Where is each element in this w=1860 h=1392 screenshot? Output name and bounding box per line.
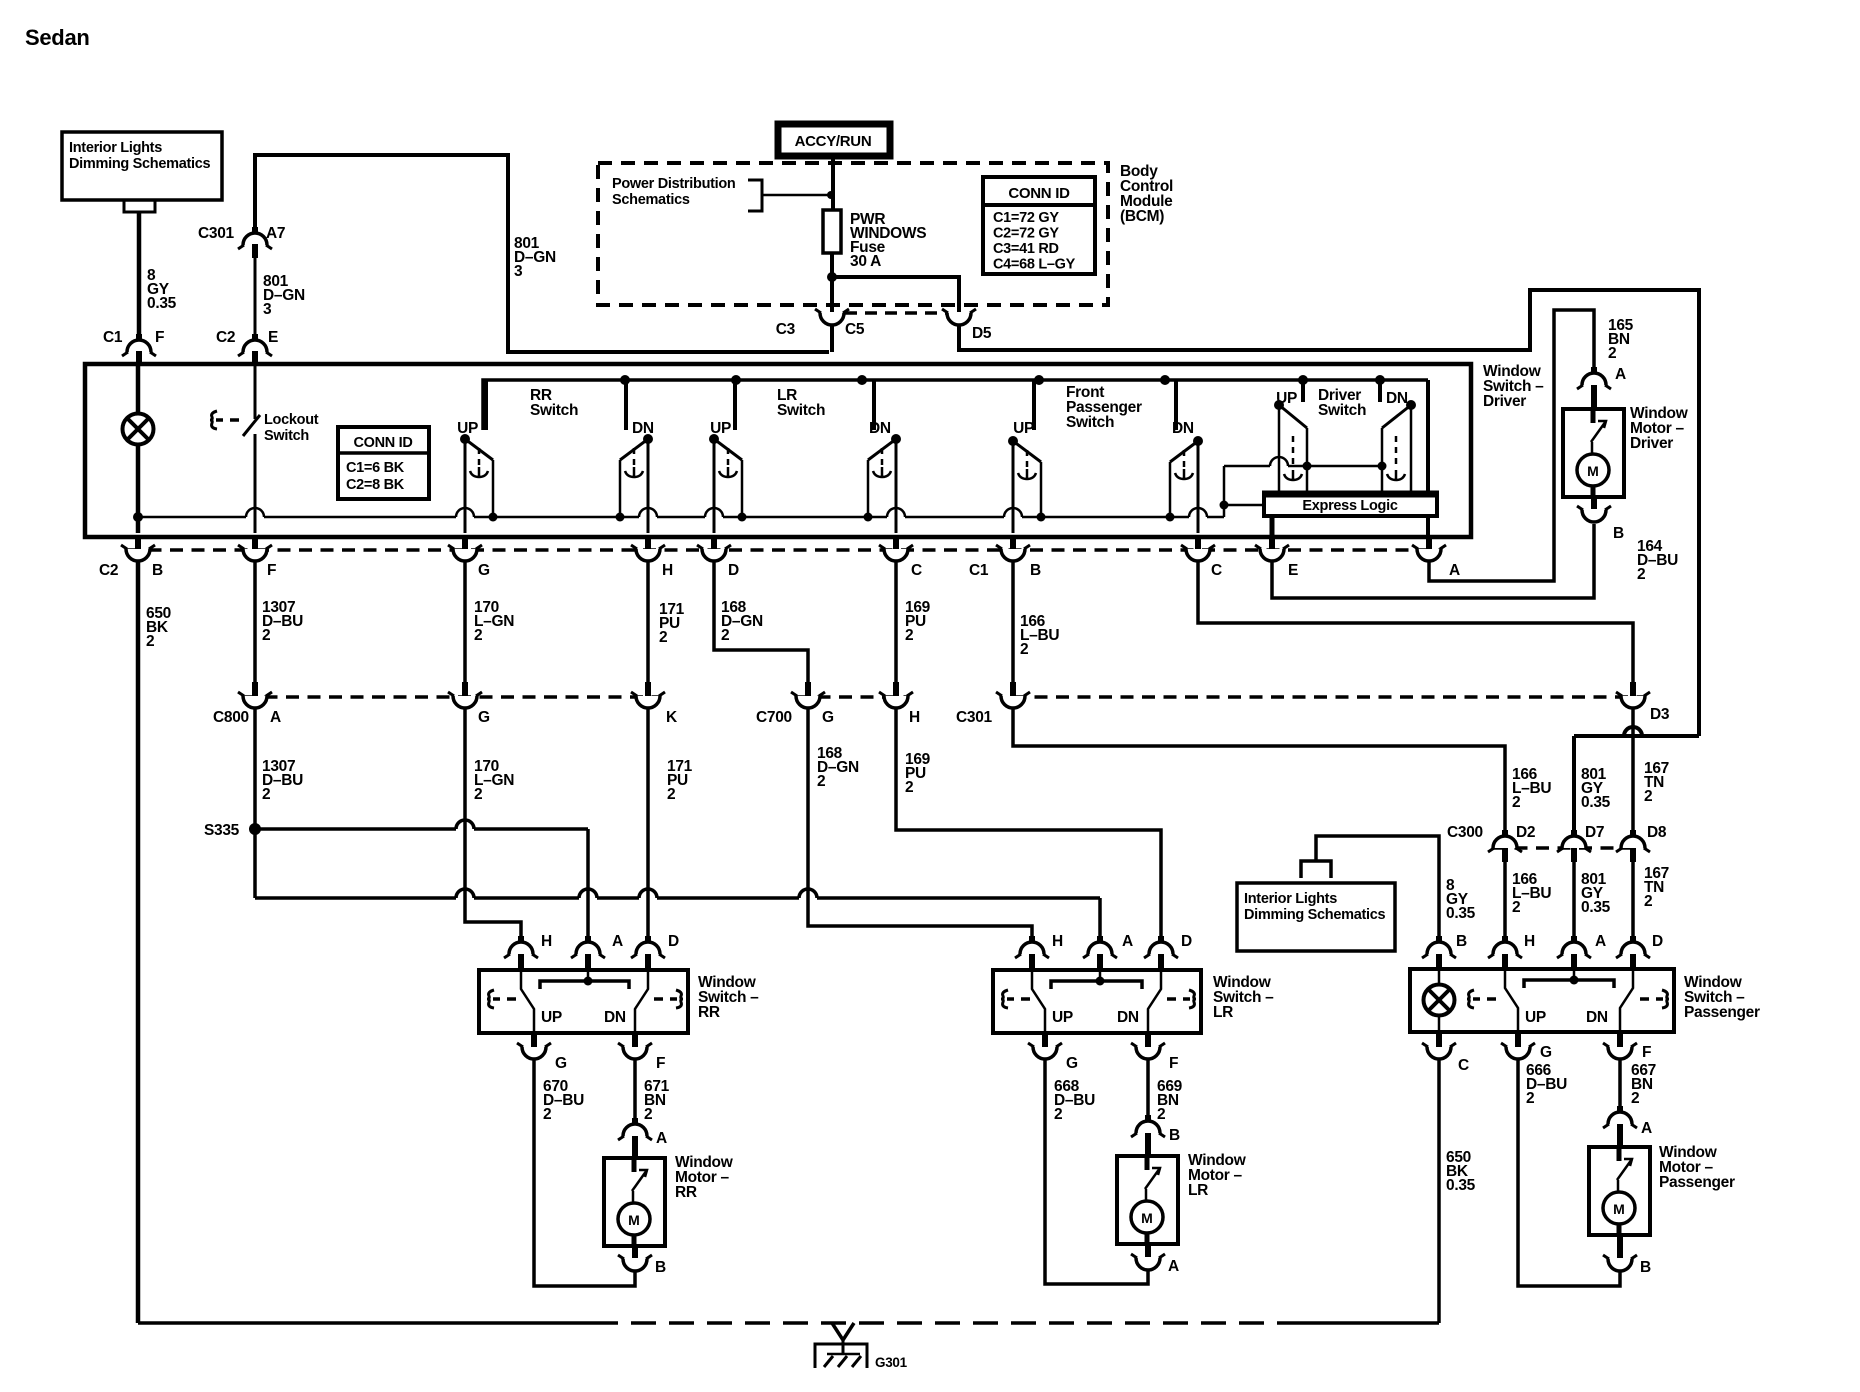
bracket below interior lights box bbox=[124, 200, 155, 212]
window switch box Window Switch - Passenger bbox=[1410, 969, 1674, 1032]
svg-text:Passenger: Passenger bbox=[1684, 1004, 1760, 1021]
stub pin D8 bbox=[1630, 830, 1636, 840]
svg-text:0.35: 0.35 bbox=[1446, 905, 1476, 922]
stub into box LR D bbox=[1158, 954, 1164, 970]
svg-text:DN: DN bbox=[604, 1009, 626, 1026]
connector cap terminal RR D bbox=[636, 942, 660, 954]
connector cap C300 terminal D7 bbox=[1562, 836, 1586, 848]
wire circuit 650 BK to ground bbox=[136, 562, 141, 1323]
svg-text:A: A bbox=[1595, 933, 1606, 950]
junction splice S335 bbox=[249, 823, 261, 835]
stub pin RR A bbox=[585, 936, 591, 946]
passenger common bar bbox=[1524, 980, 1614, 988]
svg-text:F: F bbox=[267, 562, 276, 579]
wire circuit 164 D-BU driver E to motor B bbox=[1272, 524, 1594, 598]
svg-text:C1: C1 bbox=[969, 562, 989, 579]
svg-text:B: B bbox=[1640, 1259, 1651, 1276]
svg-text:M: M bbox=[1613, 1201, 1625, 1217]
switch element Front Passenger UP bbox=[1008, 380, 1046, 533]
stub pin RR motor A bbox=[632, 1118, 638, 1128]
Window Switch - LR UP contact bbox=[1032, 970, 1045, 1033]
svg-text:CONN ID: CONN ID bbox=[1008, 185, 1070, 202]
stub pin RR D bbox=[645, 936, 651, 946]
svg-text:C: C bbox=[911, 562, 922, 579]
svg-text:M: M bbox=[1587, 463, 1599, 479]
svg-text:H: H bbox=[662, 562, 673, 579]
svg-text:UP: UP bbox=[1013, 420, 1034, 437]
stub passenger motor B out bbox=[1617, 1235, 1623, 1258]
stub into box RR A bbox=[585, 954, 591, 970]
stub PASS G out bbox=[1515, 1033, 1521, 1047]
svg-text:A: A bbox=[1615, 366, 1626, 383]
wire circuit 668 loop to motor A bbox=[1045, 1060, 1148, 1284]
svg-text:B: B bbox=[1456, 933, 1467, 950]
wire circuit 168 to LR switch H bbox=[808, 709, 1032, 940]
stub into box LR A bbox=[1097, 954, 1103, 970]
connector cap row1 terminal B bbox=[1001, 549, 1025, 561]
connector cap row1 terminal E bbox=[1260, 549, 1284, 561]
stub pin D7 bbox=[1571, 830, 1577, 840]
stub PASS F out bbox=[1617, 1033, 1623, 1047]
svg-text:Switch: Switch bbox=[264, 428, 309, 444]
wire lockout feed from C2-E bbox=[254, 365, 257, 419]
svg-text:D2: D2 bbox=[1516, 824, 1535, 841]
bracket above interior lights box bbox=[1301, 861, 1331, 878]
wire circuit 169 to LR switch D bbox=[896, 709, 1161, 940]
dashed connector row C800 bbox=[243, 695, 660, 699]
wire ACCY/RUN feed down bbox=[831, 156, 835, 210]
svg-text:A7: A7 bbox=[266, 225, 285, 242]
svg-text:2: 2 bbox=[1512, 899, 1520, 916]
connector cap row2 terminal C700 H bbox=[884, 696, 908, 708]
wire circuit 801 GY to passenger A bbox=[1572, 862, 1576, 940]
stub RR motor B out bbox=[632, 1246, 638, 1258]
svg-text:LR: LR bbox=[1188, 1182, 1208, 1199]
svg-text:2: 2 bbox=[721, 627, 729, 644]
driver sub-box right edge bbox=[1426, 380, 1430, 535]
ground bus solid left bbox=[138, 1321, 593, 1325]
stub RR G out bbox=[531, 1033, 537, 1047]
svg-text:H: H bbox=[909, 709, 920, 726]
junction feed junction bbox=[827, 191, 835, 199]
svg-text:C2=8 BK: C2=8 BK bbox=[346, 477, 405, 493]
wire switch common bus bbox=[138, 508, 1224, 517]
wire S335 branch to RR switch A bbox=[255, 820, 588, 829]
connector cap row2 terminal C301 B bbox=[1001, 696, 1025, 708]
stub into box RR D bbox=[645, 954, 651, 970]
connector cap row1 terminal C bbox=[884, 549, 908, 561]
svg-text:C5: C5 bbox=[845, 321, 865, 338]
svg-text:S335: S335 bbox=[204, 822, 240, 839]
svg-text:2: 2 bbox=[1054, 1106, 1062, 1123]
connector cap terminal PASS B bbox=[1427, 942, 1451, 954]
window motor Window Motor - RR bbox=[604, 1158, 665, 1246]
svg-text:C: C bbox=[1458, 1057, 1469, 1074]
svg-text:2: 2 bbox=[1631, 1090, 1639, 1107]
svg-text:2: 2 bbox=[1020, 641, 1028, 658]
svg-text:A: A bbox=[1641, 1120, 1652, 1137]
connector cap row2 terminal C800 A bbox=[243, 696, 267, 708]
connector cap passenger terminal C bbox=[1427, 1047, 1451, 1059]
connector cap driver motor terminal B bbox=[1582, 510, 1606, 522]
svg-text:(BCM): (BCM) bbox=[1120, 208, 1164, 225]
svg-text:D: D bbox=[668, 933, 679, 950]
dashed connector line C5-D5 bbox=[845, 311, 946, 315]
svg-text:LR: LR bbox=[1213, 1004, 1233, 1021]
svg-text:2: 2 bbox=[474, 786, 482, 803]
stub above row2 C301 D3 bbox=[1630, 682, 1636, 696]
svg-text:2: 2 bbox=[1644, 788, 1652, 805]
svg-text:G: G bbox=[555, 1055, 567, 1072]
svg-text:H: H bbox=[1524, 933, 1535, 950]
connector cap terminal PASS H bbox=[1493, 942, 1517, 954]
wire circuit 170 to C800-G bbox=[463, 562, 467, 684]
stub pin LR D bbox=[1158, 936, 1164, 946]
dashed connector row C2/C1 (switch assembly) bbox=[127, 548, 1441, 552]
connector cap row1 terminal C bbox=[1186, 549, 1210, 561]
connector cap terminal LR H bbox=[1020, 942, 1044, 954]
stub pin PASS B bbox=[1436, 936, 1442, 946]
switch element Driver UP bbox=[1274, 380, 1312, 493]
stub below D2 bbox=[1502, 848, 1508, 862]
stub above row1 C bbox=[1195, 535, 1201, 549]
svg-text:G: G bbox=[1066, 1055, 1078, 1072]
connector cap row2 terminal C800 G bbox=[453, 696, 477, 708]
svg-text:0.35: 0.35 bbox=[147, 295, 177, 312]
svg-text:D: D bbox=[728, 562, 739, 579]
wire tap to express logic bbox=[1224, 504, 1264, 507]
svg-text:Lockout: Lockout bbox=[264, 412, 319, 428]
svg-text:A: A bbox=[1168, 1258, 1179, 1275]
svg-text:Driver: Driver bbox=[1483, 393, 1526, 410]
switch element LR UP bbox=[709, 380, 747, 533]
stub above row2 C700 H bbox=[893, 682, 899, 696]
connector cap RR terminal F bbox=[623, 1047, 647, 1059]
svg-text:2: 2 bbox=[659, 629, 667, 646]
stub above row2 C301 B bbox=[1010, 682, 1016, 696]
stub pin PASS H bbox=[1502, 936, 1508, 946]
stub above row1 D bbox=[711, 535, 717, 549]
svg-text:G: G bbox=[478, 709, 490, 726]
wire driver C terminal to D3 bbox=[1198, 562, 1633, 684]
svg-text:RR: RR bbox=[698, 1004, 720, 1021]
wire circuit 666 loop to motor B bbox=[1518, 1060, 1620, 1286]
svg-text:2: 2 bbox=[667, 786, 675, 803]
stub pin A7 bbox=[252, 227, 258, 237]
switch assembly CONN ID table bbox=[338, 427, 429, 499]
stub into box PASS D bbox=[1630, 954, 1636, 970]
wire lamp to C bbox=[1438, 1015, 1441, 1032]
svg-text:D: D bbox=[1181, 933, 1192, 950]
wire lamp feed inside bbox=[1438, 969, 1441, 985]
svg-text:30 A: 30 A bbox=[850, 253, 881, 270]
wire lockout output down bbox=[254, 434, 257, 533]
stub pin C2-E bbox=[252, 334, 258, 344]
svg-text:Driver: Driver bbox=[1630, 435, 1673, 452]
ground G301 bbox=[815, 1323, 867, 1368]
express logic output to E bbox=[1270, 516, 1275, 535]
wire circuit 8 GY from interior lights bbox=[137, 212, 142, 337]
wire circuit 801 D-GN from BCM C3 to C301-A7 bbox=[255, 155, 829, 352]
wire circuit 171 to C800-K bbox=[646, 562, 650, 684]
wire circuit 8 GY to passenger lamp bbox=[1316, 836, 1439, 940]
window motor Window Motor - Driver bbox=[1563, 409, 1624, 497]
stub RR F out bbox=[632, 1033, 638, 1047]
svg-text:C: C bbox=[1211, 562, 1222, 579]
wire circuit 669 to motor B bbox=[1146, 1060, 1150, 1122]
wire circuit 167 to passenger D bbox=[1631, 862, 1635, 940]
svg-text:2: 2 bbox=[474, 627, 482, 644]
svg-text:UP: UP bbox=[1052, 1009, 1073, 1026]
svg-text:D7: D7 bbox=[1585, 824, 1604, 841]
stub LR G out bbox=[1042, 1033, 1048, 1047]
wire circuit 671 to motor A bbox=[633, 1060, 637, 1125]
svg-text:2: 2 bbox=[262, 627, 270, 644]
off-page reference Interior Lights Dimming Schematics (right) bbox=[1237, 883, 1395, 951]
junction rail junction x=625 bbox=[620, 375, 630, 385]
wire circuit 165 BN driver A to motor A bbox=[1429, 310, 1594, 581]
stub into LR motor bbox=[1145, 1133, 1151, 1156]
switch element Driver DN bbox=[1378, 380, 1417, 493]
connector cap terminal RR H bbox=[509, 942, 533, 954]
connector cap BCM D5 bbox=[947, 313, 971, 325]
lamp passenger switch lamp bbox=[1424, 985, 1455, 1016]
wire circuit 650 BK passenger to ground bbox=[1437, 1060, 1441, 1323]
connector cap terminal PASS D bbox=[1621, 942, 1645, 954]
svg-text:Switch: Switch bbox=[777, 402, 825, 419]
svg-text:G: G bbox=[1540, 1044, 1552, 1061]
wire circuit 670 loop to motor B bbox=[534, 1060, 635, 1286]
svg-text:G: G bbox=[822, 709, 834, 726]
svg-text:Dimming Schematics: Dimming Schematics bbox=[1244, 907, 1385, 923]
svg-text:Power Distribution: Power Distribution bbox=[612, 176, 736, 192]
stub into RR motor bbox=[632, 1136, 638, 1158]
Window Switch - LR DN contact bbox=[1148, 970, 1161, 1033]
switch element RR DN bbox=[616, 380, 654, 533]
connector cap passenger motor terminal B bbox=[1608, 1259, 1632, 1271]
window switch box Window Switch - LR bbox=[993, 970, 1201, 1033]
connector cap LR terminal G bbox=[1033, 1047, 1057, 1059]
stub PASS C out bbox=[1436, 1033, 1442, 1047]
connector cap C301 terminal A7 bbox=[243, 233, 267, 245]
stub above row1 G bbox=[462, 535, 468, 549]
connector cap passenger terminal F bbox=[1608, 1047, 1632, 1059]
wire circuit 167 D3 to D8 bbox=[1631, 709, 1635, 838]
connector cap terminal LR A bbox=[1088, 942, 1112, 954]
stub above row1 A bbox=[1426, 535, 1432, 549]
svg-text:F: F bbox=[1169, 1055, 1178, 1072]
main window switch assembly box (driver door) bbox=[85, 364, 1471, 537]
passenger DN contact bbox=[1620, 969, 1633, 1032]
connector cap C1 terminal F bbox=[127, 340, 151, 352]
window motor Window Motor - Passenger bbox=[1589, 1147, 1650, 1235]
svg-text:C2: C2 bbox=[216, 329, 235, 346]
svg-text:Express Logic: Express Logic bbox=[1302, 498, 1397, 514]
svg-text:0.35: 0.35 bbox=[1446, 1177, 1476, 1194]
stub into passenger motor bbox=[1617, 1124, 1623, 1147]
connector cap terminal PASS A bbox=[1562, 942, 1586, 954]
stub above row2 C800 G bbox=[462, 682, 468, 696]
connector cap row1 terminal A bbox=[1417, 549, 1441, 561]
svg-text:Interior Lights: Interior Lights bbox=[69, 140, 162, 156]
BCM dashed outline bbox=[598, 163, 1108, 305]
wire to fuse feed bbox=[762, 194, 830, 197]
svg-text:DN: DN bbox=[1586, 1009, 1608, 1026]
wire power route right side bbox=[959, 290, 1699, 736]
stub into box PASS H bbox=[1502, 954, 1508, 970]
svg-text:RR: RR bbox=[675, 1184, 697, 1201]
passenger linkage symbols bbox=[1467, 990, 1474, 1008]
switch element LR DN bbox=[864, 380, 902, 533]
svg-text:B: B bbox=[655, 1259, 666, 1276]
connector cap C300 terminal D8 bbox=[1621, 836, 1645, 848]
stub above row2 C800 A bbox=[252, 682, 258, 696]
svg-text:H: H bbox=[541, 933, 552, 950]
svg-text:C301: C301 bbox=[198, 225, 235, 242]
svg-text:DN: DN bbox=[632, 420, 654, 437]
stub pin LR motor B bbox=[1145, 1115, 1151, 1125]
dashed connector row C300 bbox=[1493, 846, 1645, 850]
stub LR motor A out bbox=[1145, 1244, 1151, 1257]
svg-text:G: G bbox=[478, 562, 490, 579]
stub pin PASS D bbox=[1630, 936, 1636, 946]
stub above row2 C700 G bbox=[805, 682, 811, 696]
svg-text:M: M bbox=[628, 1212, 640, 1228]
junction lamp / bus junction bbox=[133, 512, 143, 522]
svg-text:F: F bbox=[155, 329, 164, 346]
connector cap row1 terminal F bbox=[243, 549, 267, 561]
wire power route to D7 (hop over D3 wire) bbox=[1574, 727, 1699, 736]
ground bus solid right bbox=[1290, 1321, 1439, 1325]
svg-text:A: A bbox=[656, 1130, 667, 1147]
wire circuit 166 to C301 bbox=[1011, 562, 1015, 684]
Window Switch - RR linkage symbols bbox=[487, 990, 494, 1008]
junction express logic tap bbox=[1220, 501, 1229, 510]
wire circuit 170 to RR switch H bbox=[465, 709, 521, 940]
switch element RR UP bbox=[460, 380, 498, 533]
svg-text:2: 2 bbox=[262, 786, 270, 803]
stub below C2-E bbox=[252, 351, 258, 365]
connector cap row1 terminal G bbox=[453, 549, 477, 561]
dashed connector row C700 bbox=[796, 695, 908, 699]
wire circuit 169 to C700-H bbox=[894, 562, 898, 684]
Window Switch - LR linkage symbols bbox=[1001, 990, 1008, 1008]
connector cap row2 terminal C700 G bbox=[796, 696, 820, 708]
svg-text:C300: C300 bbox=[1447, 824, 1483, 841]
svg-text:2: 2 bbox=[1608, 345, 1616, 362]
switch element Front Passenger DN bbox=[1166, 380, 1204, 533]
connector cap C2 terminal E bbox=[243, 340, 267, 352]
svg-text:G301: G301 bbox=[875, 1355, 908, 1370]
svg-text:Schematics: Schematics bbox=[612, 192, 690, 208]
svg-text:2: 2 bbox=[644, 1106, 652, 1123]
wire lamp to ground bus bbox=[136, 445, 141, 533]
ground bus dashed middle bbox=[593, 1321, 1290, 1325]
dashed connector row C301 bbox=[1013, 695, 1645, 699]
svg-text:B: B bbox=[1613, 525, 1624, 542]
svg-text:A: A bbox=[1449, 562, 1460, 579]
svg-text:K: K bbox=[666, 709, 678, 726]
svg-text:C1: C1 bbox=[103, 329, 123, 346]
wire branch to D5 bbox=[832, 277, 959, 312]
wire circuit 801 D-GN to C2-E bbox=[254, 258, 257, 337]
svg-text:Interior Lights: Interior Lights bbox=[1244, 891, 1337, 907]
junction rail junction x=1303 bbox=[1298, 375, 1308, 385]
svg-text:Dimming Schematics: Dimming Schematics bbox=[69, 156, 210, 172]
connector cap BCM C3/C5 bbox=[820, 313, 844, 325]
wire circuit 1307 to C800-A bbox=[253, 562, 257, 684]
connector cap passenger motor terminal A bbox=[1608, 1112, 1632, 1124]
window switch box Window Switch - RR bbox=[479, 970, 688, 1033]
svg-text:C3=41 RD: C3=41 RD bbox=[993, 241, 1059, 257]
svg-text:Switch: Switch bbox=[1066, 414, 1114, 431]
svg-text:ACCY/RUN: ACCY/RUN bbox=[795, 133, 872, 150]
stub below A7 bbox=[252, 244, 258, 258]
stub above row1 E bbox=[1269, 535, 1275, 549]
svg-text:2: 2 bbox=[905, 779, 913, 796]
junction rail junction x=1165 bbox=[1160, 375, 1170, 385]
connector cap RR motor terminal B bbox=[623, 1259, 647, 1271]
stub below D7 bbox=[1571, 848, 1577, 862]
svg-text:E: E bbox=[268, 329, 278, 346]
wire branch down to RR A bbox=[586, 829, 590, 940]
svg-text:UP: UP bbox=[541, 1009, 562, 1026]
stub pin LR A bbox=[1097, 936, 1103, 946]
junction rail junction x=862 bbox=[857, 375, 867, 385]
stub above row2 C800 K bbox=[645, 682, 651, 696]
fuse PWR WINDOWS 30 A bbox=[823, 210, 841, 253]
svg-text:D8: D8 bbox=[1647, 824, 1667, 841]
stub into box PASS A bbox=[1571, 954, 1577, 970]
connector cap row2 terminal C800 K bbox=[636, 696, 660, 708]
stub pin C1-F bbox=[136, 334, 142, 344]
Window Switch - RR DN contact bbox=[635, 970, 648, 1033]
svg-text:2: 2 bbox=[1637, 566, 1645, 583]
svg-text:0.35: 0.35 bbox=[1581, 794, 1611, 811]
Window Switch - LR common bar bbox=[1051, 981, 1142, 989]
svg-text:DN: DN bbox=[1117, 1009, 1139, 1026]
svg-text:F: F bbox=[656, 1055, 665, 1072]
connector cap row2 terminal C301 D3 bbox=[1621, 696, 1645, 708]
wire C3 down to horizontal bbox=[830, 324, 834, 352]
wire circuit 667 to motor A bbox=[1618, 1060, 1622, 1113]
wire driver switch bus bbox=[1224, 457, 1382, 466]
svg-text:A: A bbox=[1122, 933, 1133, 950]
svg-text:2: 2 bbox=[1157, 1106, 1165, 1123]
lamp illumination lamp (driver switch) bbox=[123, 414, 154, 445]
connector cap terminal RR A bbox=[576, 942, 600, 954]
svg-text:A: A bbox=[270, 709, 281, 726]
svg-text:2: 2 bbox=[1526, 1090, 1534, 1107]
svg-text:Switch: Switch bbox=[1318, 402, 1366, 419]
stub below C1-F bbox=[136, 351, 142, 365]
stub into box RR H bbox=[518, 954, 524, 970]
connector cap LR terminal F bbox=[1136, 1047, 1160, 1059]
connector cap driver motor terminal A bbox=[1582, 373, 1606, 385]
connector cap terminal LR D bbox=[1149, 942, 1173, 954]
connector cap row1 terminal D bbox=[702, 549, 726, 561]
svg-text:B: B bbox=[1030, 562, 1041, 579]
svg-text:M: M bbox=[1141, 1210, 1153, 1226]
wire circuit 168 to C700-G bbox=[714, 562, 808, 684]
connector cap RR terminal G bbox=[522, 1047, 546, 1059]
ACCY/RUN feed box bbox=[778, 124, 890, 156]
wire circuit 166 to passenger H bbox=[1503, 862, 1507, 940]
svg-text:CONN ID: CONN ID bbox=[353, 435, 412, 451]
stub above row1 C bbox=[893, 535, 899, 549]
svg-text:B: B bbox=[1169, 1127, 1180, 1144]
stub into box PASS B bbox=[1436, 954, 1442, 970]
